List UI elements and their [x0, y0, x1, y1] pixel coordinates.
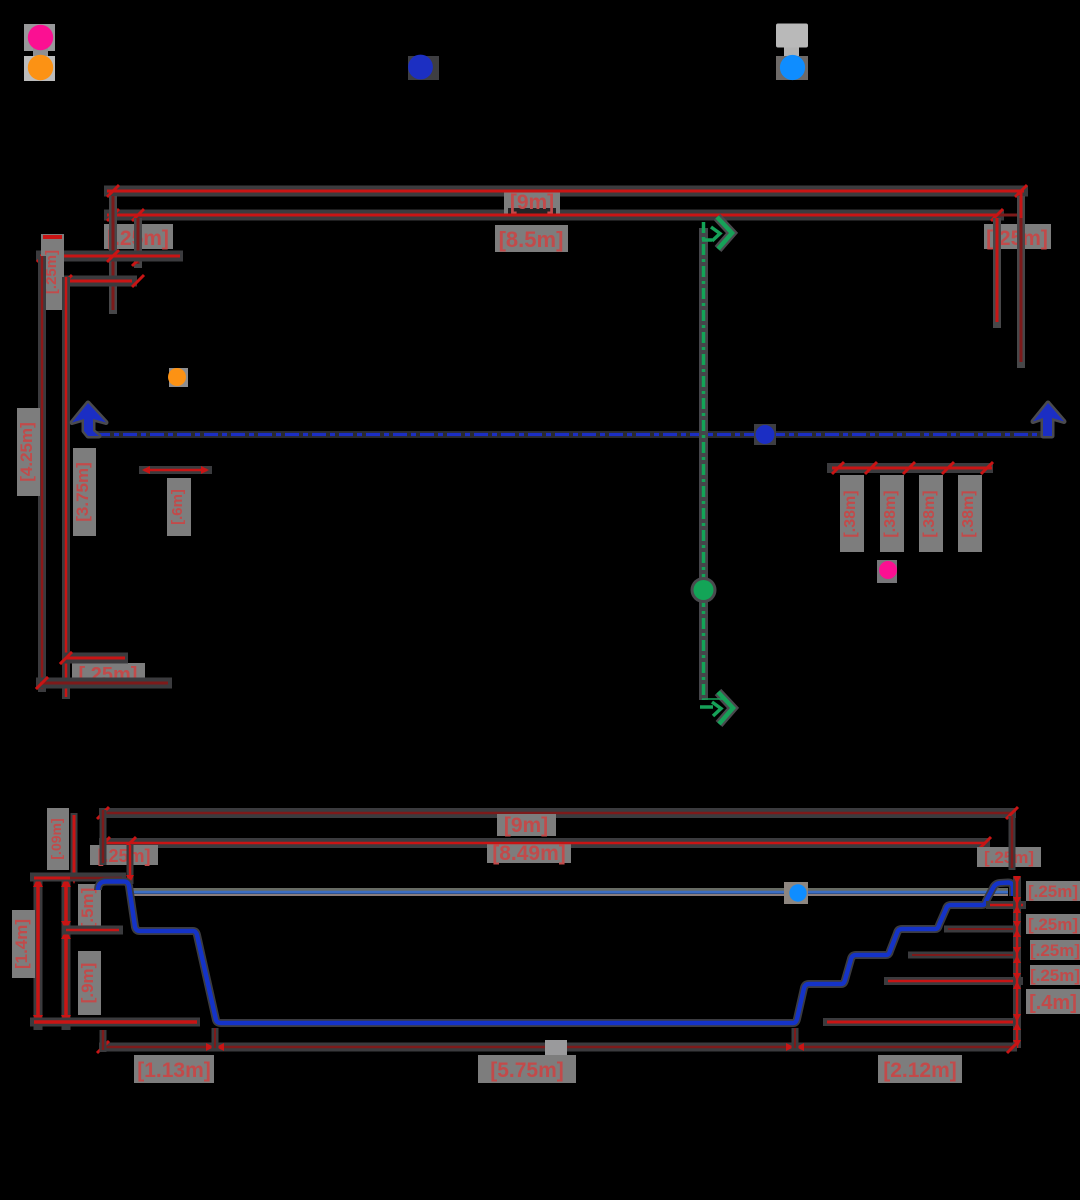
svg-text:[8.49m]: [8.49m] — [492, 842, 566, 865]
green section line — [699, 222, 708, 700]
svg-text:[3.75m]: [3.75m] — [73, 462, 92, 522]
bottom-left line y658 — [60, 652, 128, 664]
left vertical dim 4.25m — [36, 256, 48, 692]
extension x103 section top — [100, 810, 107, 865]
svg-text:[2.12m]: [2.12m] — [883, 1059, 957, 1082]
svg-text:[9m]: [9m] — [504, 814, 548, 837]
label [.4m] bottom step — [1026, 989, 1080, 1014]
dim 9m line — [107, 185, 1027, 197]
svg-text:[.9m]: [.9m] — [78, 963, 97, 1004]
extension line x113 — [109, 196, 117, 314]
rotated step label 3 — [919, 475, 943, 552]
dim 8.5m line — [107, 209, 1022, 221]
svg-text:[9m]: [9m] — [510, 191, 554, 214]
svg-text:[1.4m]: [1.4m] — [12, 919, 31, 969]
step dim line y955 — [908, 952, 1018, 959]
svg-text:[.25m]: [.25m] — [1028, 882, 1078, 901]
ladder dim line — [139, 466, 212, 474]
rotated label [1.4m] — [12, 910, 35, 978]
right step dim vertical x1017 — [1013, 876, 1021, 1048]
legend swatch waterline dot — [776, 55, 808, 80]
step dim line y905 — [986, 901, 1026, 909]
magenta dot plan — [877, 560, 897, 583]
svg-text:[.38m]: [.38m] — [882, 490, 899, 537]
svg-text:[8.5m]: [8.5m] — [499, 227, 564, 252]
extension x103 section bottom — [100, 1030, 107, 1052]
extension line x138 — [132, 218, 144, 268]
bottom dim line section — [97, 1041, 1019, 1053]
label [.25m] step1 — [1026, 881, 1080, 901]
label [8.5m] plan — [495, 225, 568, 252]
rotated label [3.75m] — [73, 448, 96, 536]
green section arrow top — [702, 217, 732, 249]
right steps dim line plan — [827, 462, 993, 474]
section top connector y877 — [30, 877, 126, 878]
left depth dim vertical x38 — [33, 877, 43, 1030]
svg-text:[.25m]: [.25m] — [1030, 966, 1080, 985]
extension line x997 right — [993, 218, 1001, 328]
centerline arrow right — [1033, 403, 1064, 436]
green dot on section line — [691, 577, 717, 603]
rotated label [.09m] freeboard — [47, 808, 69, 870]
svg-text:[.6m]: [.6m] — [169, 489, 186, 525]
rotated label [.25m] top-left vertical — [41, 234, 64, 310]
water line dot — [784, 882, 808, 904]
label [.25m] step3 — [1030, 940, 1080, 960]
section dim 8.49m line — [98, 837, 991, 849]
rotated step label 1 — [840, 475, 864, 552]
label [.25m] bottom-left — [72, 663, 145, 687]
svg-text:[.25m]: [.25m] — [1028, 915, 1078, 934]
pool profile — [98, 882, 1013, 1024]
rotated step label 4 — [958, 475, 982, 552]
step dim line y1022 — [823, 1018, 1020, 1026]
top-left corner line y281 — [56, 275, 144, 287]
label [2.12m] — [878, 1055, 962, 1083]
extension x215 section bottom — [212, 1028, 219, 1050]
section floor connector y1022 left — [30, 1018, 200, 1027]
section step connector y930 — [62, 926, 123, 935]
extension x130 section top — [126, 845, 134, 884]
svg-text:[.38m]: [.38m] — [921, 490, 938, 537]
bottom-left line y683 — [36, 677, 172, 689]
svg-text:[.38m]: [.38m] — [842, 490, 859, 537]
left vertical dim 3.75m — [60, 277, 72, 699]
section label [9m] — [497, 814, 556, 837]
legend swatch orange — [24, 55, 55, 81]
rotated label [.9m] — [78, 951, 101, 1015]
svg-text:[4.25m]: [4.25m] — [17, 422, 36, 482]
svg-text:[.4m]: [.4m] — [1029, 992, 1077, 1014]
section label [8.49m] — [487, 842, 571, 865]
freeboard extension x73 — [62, 813, 78, 890]
extension x795 section bottom — [792, 1028, 799, 1050]
blue dot on centerline — [754, 424, 776, 445]
svg-text:[.38m]: [.38m] — [960, 490, 977, 537]
label [9m] plan — [504, 191, 560, 214]
section dim 9m line — [97, 807, 1018, 819]
green section arrow bottom — [700, 692, 733, 724]
orange dot plan — [168, 368, 188, 387]
blue centerline — [96, 431, 1049, 438]
water line — [133, 891, 1008, 896]
step dim line y981 — [884, 977, 1023, 985]
legend swatch blue centerline dot — [408, 55, 439, 80]
inner depth dim vertical x66 — [61, 877, 71, 1030]
section label [.25m] right — [977, 847, 1041, 867]
svg-text:[.5m]: [.5m] — [78, 888, 97, 929]
legend swatch water gray square — [776, 24, 808, 57]
rotated label [.5m] — [78, 884, 101, 932]
label [.25m] top-right — [984, 224, 1051, 250]
dim 8.5m line halo — [104, 210, 1004, 221]
centerline arrow left — [72, 403, 106, 436]
extension line x1021 right — [1017, 191, 1025, 368]
svg-text:[.25m]: [.25m] — [1030, 941, 1080, 960]
legend swatch magenta — [24, 24, 55, 56]
svg-text:[5.75m]: [5.75m] — [490, 1059, 564, 1082]
svg-text:[1.13m]: [1.13m] — [137, 1059, 211, 1082]
section dim 8.49m line halo — [99, 838, 990, 848]
section label [.25m] left — [90, 845, 158, 866]
rotated label [.6m] ladder — [167, 478, 191, 536]
step dim line y929 — [944, 926, 1018, 933]
label [5.75m] — [478, 1040, 576, 1083]
svg-text:[.09m]: [.09m] — [48, 818, 64, 859]
dim 9m line halo — [104, 186, 1028, 197]
label [.25m] step2 — [1026, 914, 1080, 934]
label [.25m] top-left — [104, 224, 173, 250]
label [.25m] step4 — [1030, 965, 1080, 985]
label [1.13m] — [134, 1055, 214, 1083]
rotated label [4.25m] — [17, 408, 40, 496]
rotated step label 2 — [880, 475, 904, 552]
extension x1012 section top right — [1009, 816, 1016, 870]
top-left corner line y256 — [36, 250, 183, 262]
